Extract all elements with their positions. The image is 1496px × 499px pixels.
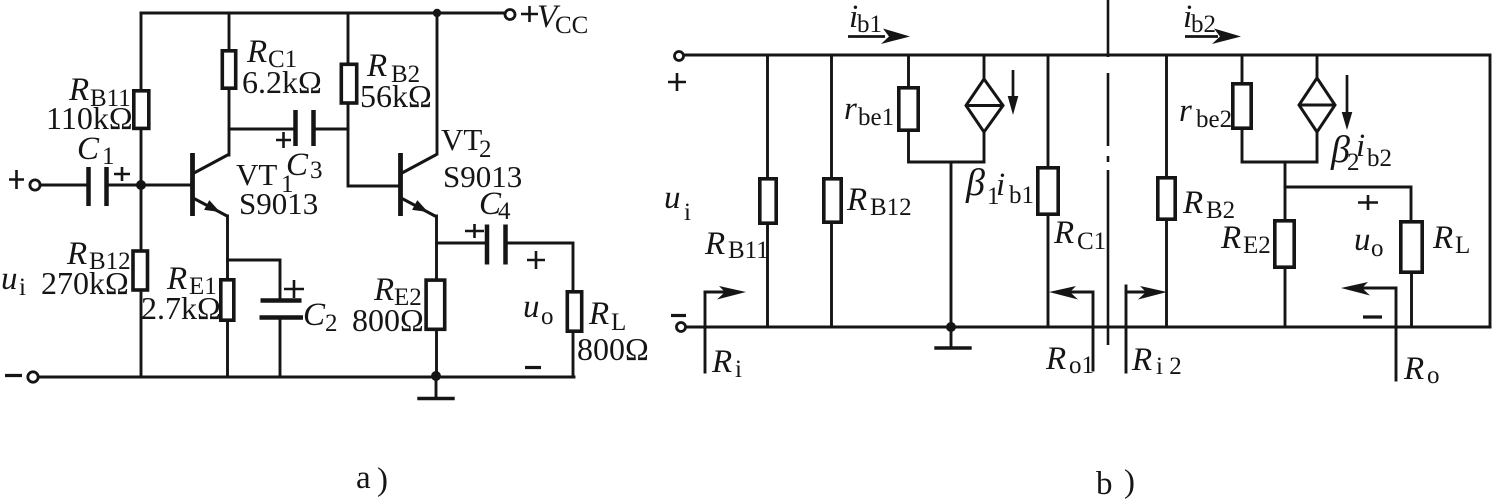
svg-text:b2: b2	[1367, 145, 1392, 172]
svg-text:a: a	[356, 460, 371, 496]
svg-text:R: R	[1045, 341, 1066, 377]
svg-text:110kΩ: 110kΩ	[46, 100, 133, 136]
svg-text:β: β	[965, 162, 985, 204]
svg-text:be1: be1	[858, 104, 894, 131]
svg-text:u: u	[1, 261, 18, 297]
svg-text:): )	[1124, 464, 1135, 499]
svg-text:i: i	[735, 356, 742, 383]
svg-text:E2: E2	[1243, 232, 1271, 259]
svg-text:R: R	[588, 296, 609, 332]
svg-text:R: R	[704, 226, 725, 262]
svg-text:56kΩ: 56kΩ	[360, 78, 432, 114]
svg-text:o1: o1	[1069, 352, 1094, 379]
svg-text:6.2kΩ: 6.2kΩ	[242, 64, 322, 100]
svg-text:i: i	[684, 199, 691, 226]
svg-text:2.7kΩ: 2.7kΩ	[141, 290, 221, 326]
svg-text:R: R	[1131, 342, 1152, 378]
svg-text:CC: CC	[555, 12, 588, 39]
svg-text:r: r	[844, 91, 857, 127]
svg-text:b: b	[1096, 466, 1113, 499]
svg-text:C1: C1	[1077, 228, 1106, 255]
svg-text:o: o	[541, 303, 554, 330]
svg-text:R: R	[1432, 220, 1453, 256]
svg-text:i: i	[19, 274, 26, 301]
svg-text:be2: be2	[1196, 106, 1232, 133]
svg-text:B12: B12	[870, 194, 912, 221]
svg-text:C: C	[303, 297, 326, 333]
svg-text:R: R	[1220, 220, 1241, 256]
svg-text:1: 1	[102, 143, 115, 170]
svg-text:o: o	[1371, 235, 1384, 262]
svg-text:R: R	[1053, 215, 1074, 251]
svg-text:b1: b1	[1009, 182, 1034, 209]
svg-text:3: 3	[310, 157, 323, 184]
svg-text:u: u	[1354, 222, 1371, 258]
svg-text:L: L	[1455, 232, 1470, 259]
svg-text:S9013: S9013	[239, 186, 318, 221]
svg-text:u: u	[664, 180, 681, 216]
svg-text:R: R	[846, 182, 867, 218]
svg-text:i: i	[1356, 128, 1365, 164]
svg-text:800Ω: 800Ω	[577, 331, 649, 367]
svg-text:2: 2	[325, 310, 338, 337]
svg-text:R: R	[711, 344, 732, 380]
svg-text:VT: VT	[441, 122, 482, 157]
svg-text:i: i	[996, 167, 1005, 203]
svg-text:B11: B11	[728, 237, 769, 264]
svg-text:4: 4	[498, 198, 511, 225]
svg-text:C: C	[77, 131, 100, 167]
svg-text:b2: b2	[1191, 11, 1216, 38]
svg-text:C: C	[286, 147, 309, 183]
svg-text:r: r	[1179, 93, 1192, 129]
svg-text:800Ω: 800Ω	[352, 302, 424, 338]
svg-text:270kΩ: 270kΩ	[41, 265, 129, 301]
svg-text:o: o	[1427, 362, 1440, 389]
svg-text:R: R	[1403, 351, 1424, 387]
svg-text:i 2: i 2	[1156, 353, 1182, 380]
svg-text:): )	[377, 462, 388, 498]
svg-text:b1: b1	[857, 11, 882, 38]
svg-text:u: u	[523, 289, 540, 325]
svg-text:R: R	[1182, 185, 1203, 221]
